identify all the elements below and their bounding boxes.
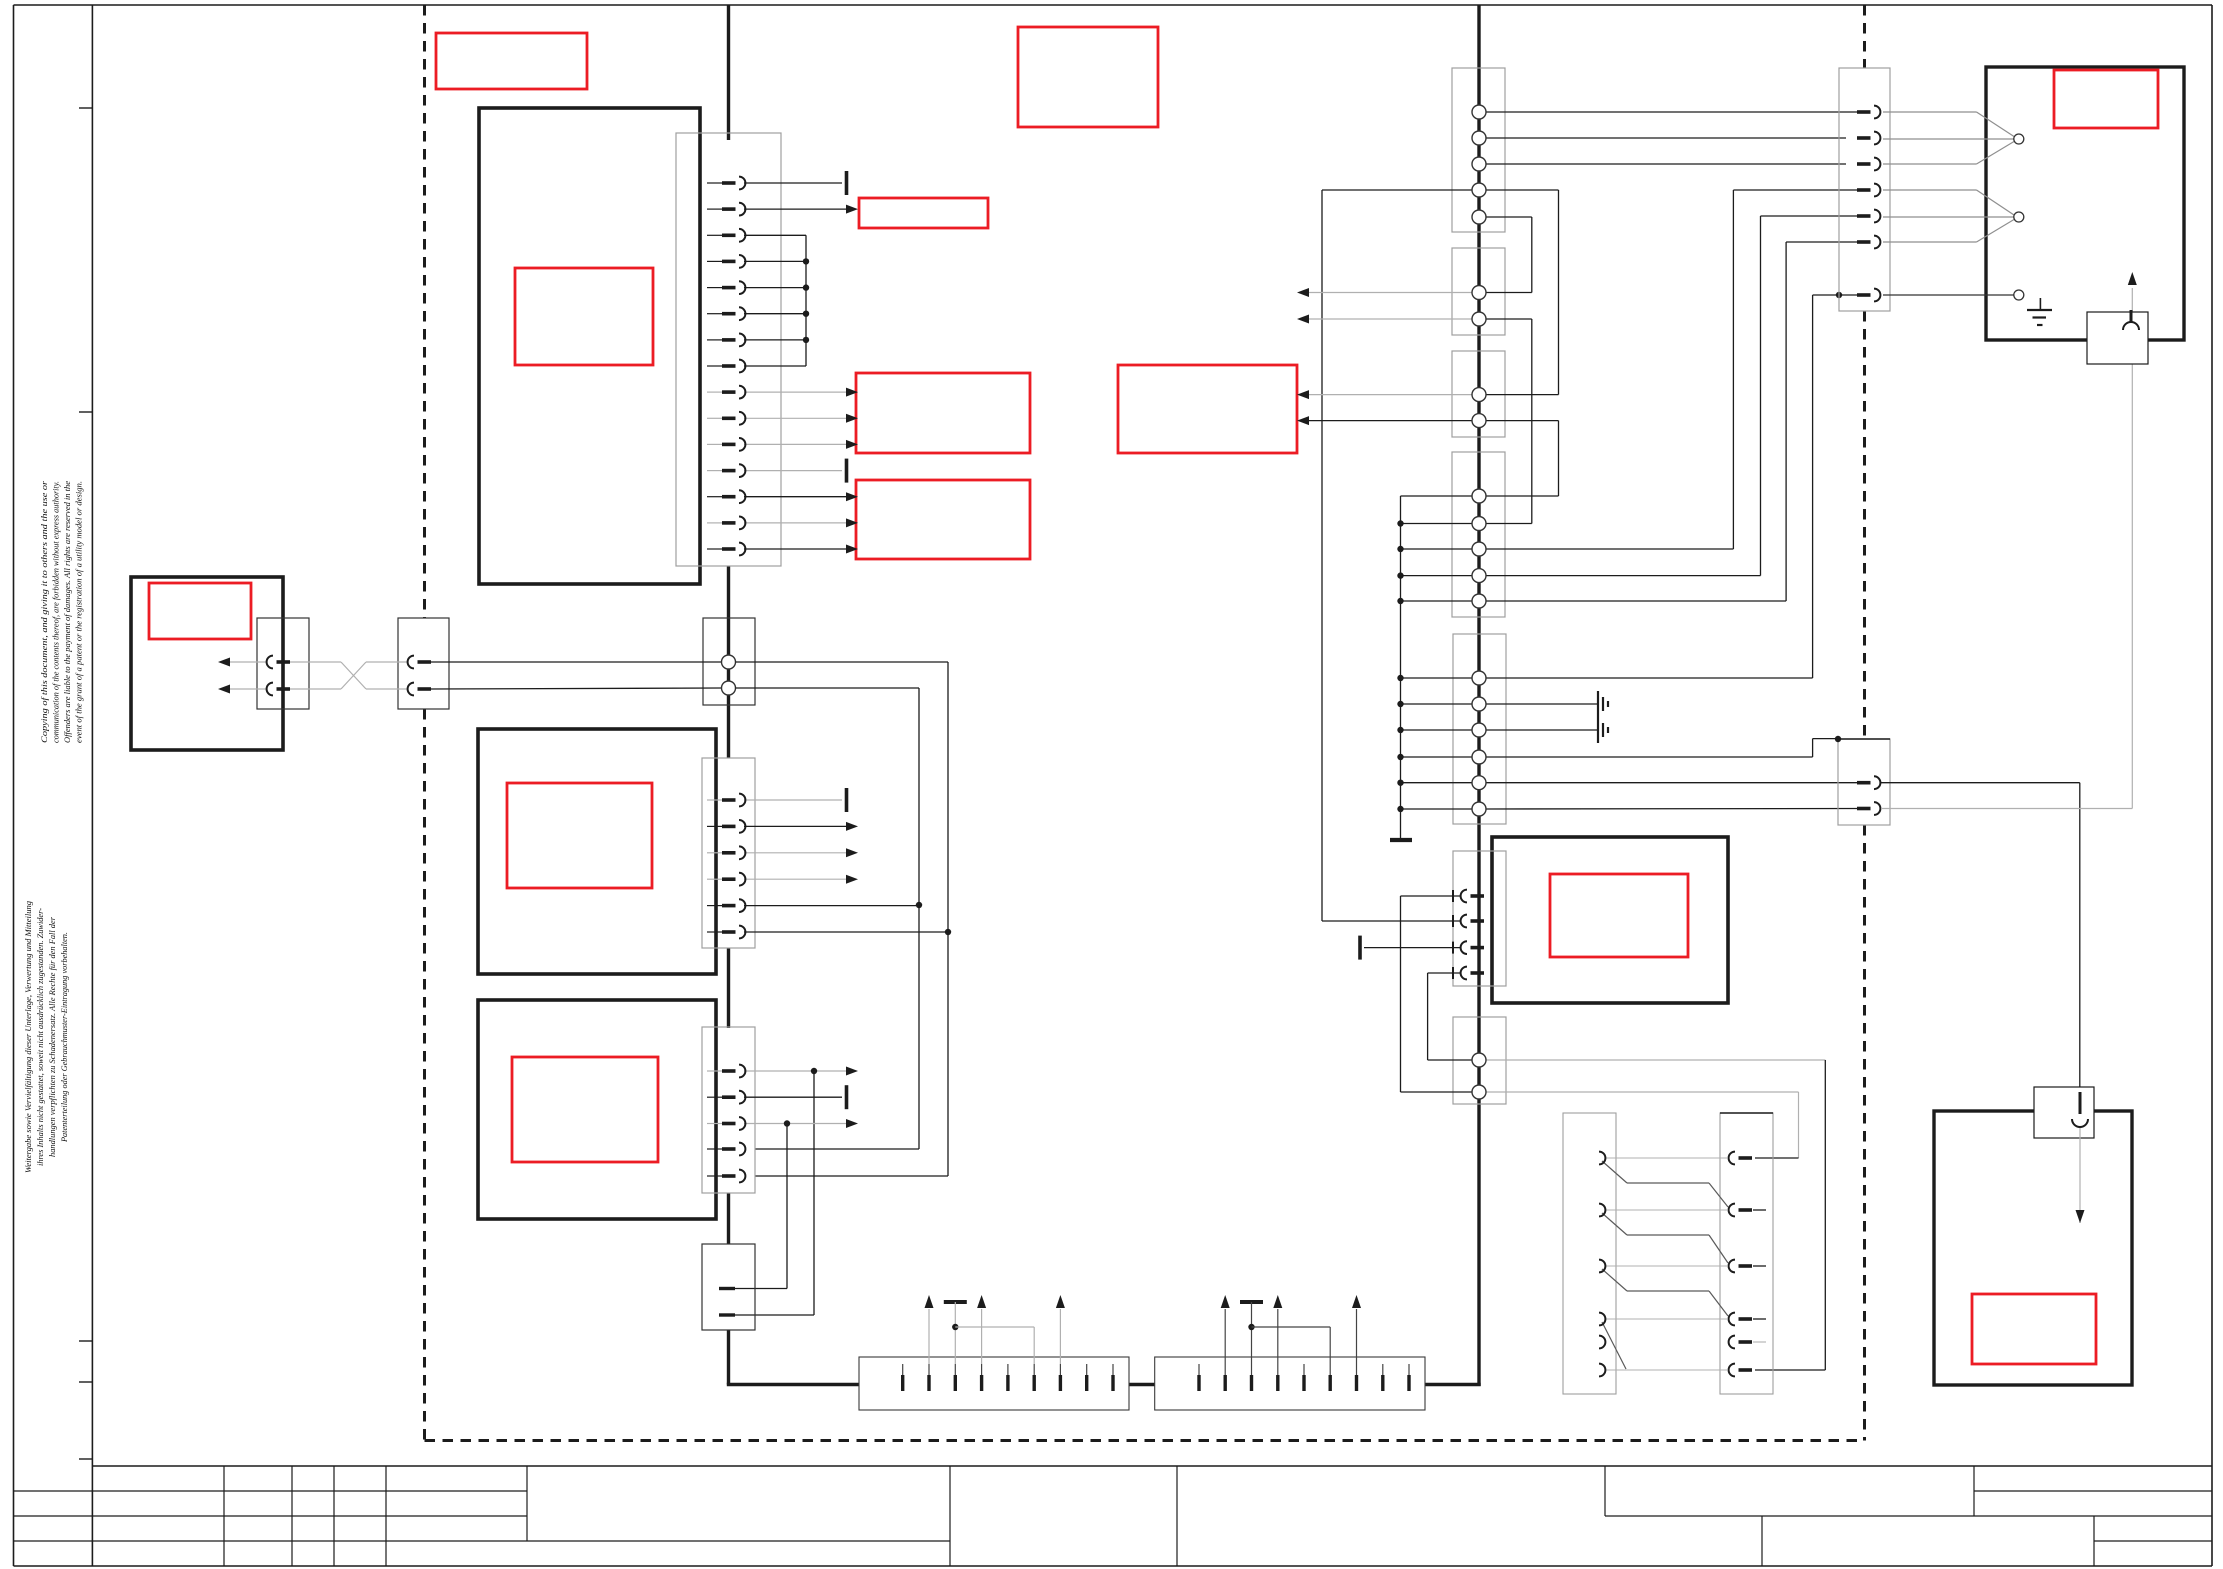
svg-text:communication of the contents: communication of the contents thereof, a…: [51, 481, 61, 743]
svg-text:Offenders are liable to the pa: Offenders are liable to the payment of d…: [62, 481, 72, 743]
svg-text:Copying of this document, and: Copying of this document, and giving it …: [39, 480, 49, 743]
svg-text:event of the grant of a patent: event of the grant of a patent or the re…: [74, 481, 84, 743]
svg-text:ihres Inhalts nicht gestattet,: ihres Inhalts nicht gestattet, soweit ni…: [35, 908, 45, 1166]
svg-text:handlungen verpflichten zu Sch: handlungen verpflichten zu Schadenersatz…: [47, 916, 57, 1157]
svg-text:Patenterteilung oder Gebrauchm: Patenterteilung oder Gebrauchmuster-Eint…: [59, 932, 69, 1143]
svg-text:Weitergabe sowie Vervielfältig: Weitergabe sowie Vervielfältigung dieser…: [23, 901, 33, 1173]
